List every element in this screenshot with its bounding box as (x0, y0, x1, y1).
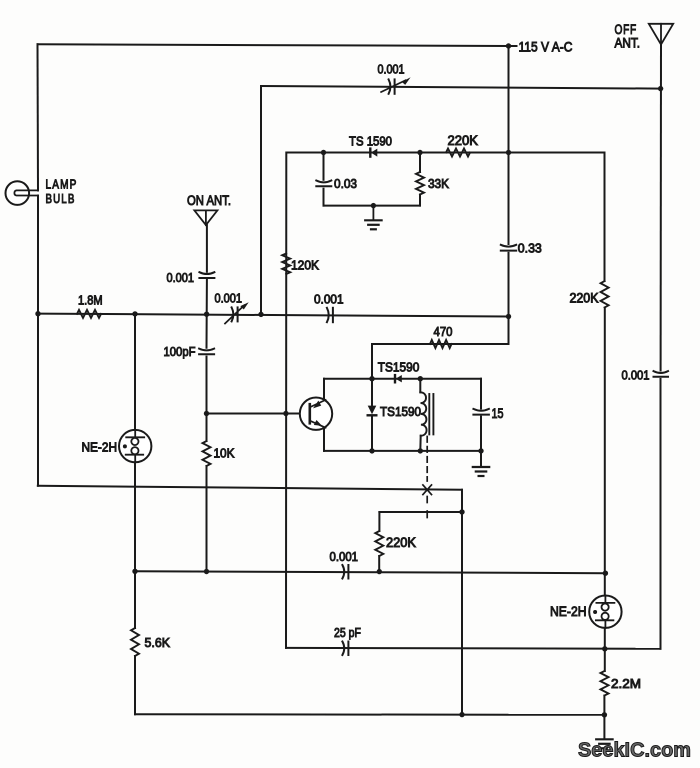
wire osc right vertical upper (480, 379, 482, 409)
svg-text:0.33: 0.33 (518, 241, 542, 256)
svg-text:25 pF: 25 pF (334, 625, 361, 640)
svg-text:ANT.: ANT. (615, 35, 641, 50)
wire TS1590 row horizontal (287, 152, 605, 154)
resistor 2.2M (601, 671, 609, 696)
wire right vertical x660 lower (660, 379, 662, 649)
resistor 220K (top) (446, 149, 470, 157)
junction y571 / 220K lower (377, 569, 382, 574)
junction y571 / x206 (204, 569, 209, 574)
capacitor 0.001 (bottom) (342, 565, 344, 579)
svg-text:1.8M: 1.8M (78, 294, 103, 308)
wire bottom horizontal (135, 713, 604, 716)
wire 220K lower bottom lead (378, 556, 380, 572)
wire 33K top lead (419, 153, 421, 173)
junction 115V bus / x508 (506, 43, 511, 48)
junction antenna bus / x660 (658, 86, 663, 91)
junction y571 / x135 (132, 569, 137, 574)
junction bottom / x462 (459, 712, 464, 717)
diode TS1590 (osc vertical) (368, 406, 377, 415)
capacitor 100pF (199, 349, 214, 351)
wire vertical x604 right branch upper (604, 153, 606, 282)
wire top horizontal 115V bus (38, 44, 509, 46)
svg-text:0.001: 0.001 (215, 292, 243, 306)
junction 25pF row / neon right (602, 646, 607, 651)
antenna OFF ANT (649, 24, 673, 45)
dashed adjust line (426, 437, 428, 482)
wire osc ground stub (480, 451, 482, 467)
wire vertical x604 (220K to neon) (604, 308, 606, 596)
resistor 120K (282, 254, 290, 275)
svg-text:NE-2H: NE-2H (82, 439, 118, 454)
resistor 220K (lower) (375, 531, 383, 556)
svg-text:NE-2H: NE-2H (550, 604, 587, 619)
junction osc bottom / coil (418, 448, 423, 453)
wire osc left upper (collector) (323, 379, 325, 401)
wire 33K bottom lead (419, 195, 421, 206)
capacitor 0.001 (antenna branch) (199, 272, 214, 274)
svg-text:0.03: 0.03 (334, 176, 357, 191)
wire horizontal y571 (135, 571, 606, 573)
wire osc left lower (emitter) (323, 427, 325, 451)
svg-text:220K: 220K (570, 291, 599, 306)
junction main mid / left vertical (35, 311, 40, 316)
junction base / x206 (204, 411, 209, 416)
wire osc right vertical lower (480, 417, 482, 451)
wire coil left vertical top lead (419, 379, 421, 393)
wire 470 row horizontal (372, 343, 509, 345)
junction x508 / TS1590 row (506, 150, 511, 155)
wire main mid horizontal (38, 314, 509, 317)
junction y512 / x462 (459, 509, 464, 514)
svg-text:115 V A-C: 115 V A-C (519, 39, 573, 55)
svg-text:220K: 220K (386, 535, 416, 550)
svg-text:2.2M: 2.2M (611, 676, 641, 691)
wire coil left vertical bottom lead (419, 436, 421, 451)
junction base / x286 (283, 411, 288, 416)
wire vertical x261 (260, 86, 262, 314)
wire neon2 to 2.2M (604, 628, 606, 671)
wire vertical x508 (from top bus) (508, 46, 510, 244)
junction osc top / x372 (369, 376, 374, 381)
svg-text:0.001: 0.001 (167, 271, 195, 285)
junction main mid / x261 (258, 312, 263, 317)
wire vertical x372 (470 to osc top) (371, 344, 373, 379)
transistor Q1 (300, 398, 332, 430)
svg-text:TS1590: TS1590 (378, 360, 420, 375)
junction y571 / neon right (603, 571, 608, 576)
wire 0.03 branch vertical upper (323, 153, 325, 180)
capacitor 25pF (342, 642, 344, 656)
ground (bottom) (596, 738, 612, 740)
wire TS1590 vert diode top lead (371, 379, 373, 406)
svg-text:SeekIC.com: SeekIC.com (578, 739, 691, 762)
lamp bulb (5, 181, 29, 205)
wire vertical x286 (120K branch) (285, 153, 287, 648)
wire 0.03 branch vertical lower (323, 189, 325, 206)
wire ON ANT mast (206, 225, 208, 272)
wire left vertical main (lower) (37, 196, 39, 486)
junction ground 0.03/33K (371, 203, 376, 208)
svg-text:33K: 33K (428, 176, 449, 191)
wire osc box top (324, 378, 481, 380)
svg-text:0.001: 0.001 (378, 63, 405, 77)
junction osc bottom / ground (478, 448, 483, 453)
wire right vertical x660 (OFF ANT down) (660, 45, 662, 371)
variable capacitor 0.001 (mid) (232, 307, 234, 321)
wire horizontal y512 (379, 511, 462, 513)
wire 2.2M bottom lead (603, 696, 605, 715)
junction main mid / x508 (506, 314, 511, 319)
junction main mid / x206 (204, 312, 209, 317)
capacitor 0.001 (right) (654, 371, 669, 373)
svg-text:TS1590: TS1590 (380, 404, 421, 419)
wire vertical x135 (upper) (134, 314, 136, 430)
svg-text:0.001: 0.001 (622, 369, 650, 383)
ground (0.03/33K) (372, 206, 374, 220)
inductor L1 (420, 392, 426, 435)
resistor 5.6K (131, 628, 139, 656)
junction 0.03 branch (321, 150, 326, 155)
svg-text:0.001: 0.001 (314, 293, 344, 307)
wire base lead horizontal (207, 413, 310, 415)
junction bottom / 2.2M (602, 712, 607, 717)
wire antenna bus horizontal (261, 86, 661, 89)
wire 25pF row horizontal (286, 647, 661, 650)
svg-text:100pF: 100pF (164, 344, 196, 359)
wire TS1590 vert diode bottom lead (371, 417, 373, 451)
wire vertical x135 (through to 5.6K) (134, 462, 136, 628)
capacitor 0.001 (mid wire) (327, 308, 329, 322)
wire x206 below 10K (206, 466, 208, 572)
svg-text:TS 1590: TS 1590 (349, 134, 392, 149)
svg-text:BULB: BULB (46, 191, 76, 206)
junction main mid / x135 (132, 311, 137, 316)
svg-text:120K: 120K (291, 257, 319, 272)
wire 220K lower top lead (378, 512, 380, 531)
junction osc top / coil (418, 376, 423, 381)
neon bulb NE-2H (left) (119, 430, 151, 462)
wire osc box bottom (324, 450, 481, 452)
wire left vertical main (upper) (37, 44, 40, 190)
svg-text:5.6K: 5.6K (145, 635, 171, 650)
svg-text:470: 470 (434, 324, 453, 339)
capacitor 0.03 (316, 181, 331, 183)
antenna ON ANT (194, 210, 217, 225)
ground (oscillator) (473, 466, 489, 468)
resistor 1.8M (77, 310, 101, 318)
wire vertical x508 (below 0.33) (508, 253, 510, 344)
diode TS1590 (row) (369, 149, 371, 157)
wire x206 below 100pF (206, 357, 208, 441)
svg-text:ON ANT.: ON ANT. (187, 193, 231, 208)
resistor 470 (430, 340, 452, 348)
resistor 10K (203, 441, 211, 466)
wire 115V label stub (509, 45, 517, 47)
svg-text:0.001: 0.001 (330, 550, 359, 564)
variable capacitor 0.001 top (389, 79, 391, 93)
svg-text:10K: 10K (214, 446, 235, 461)
resistor 33K (416, 172, 424, 195)
wire vertical x462 (461, 490, 463, 715)
capacitor 0.33 (501, 245, 516, 247)
diode TS1590 (osc top) (394, 375, 396, 382)
svg-text:220K: 220K (448, 133, 479, 148)
wire bottom ground stub (603, 715, 605, 739)
capacitor 15 (473, 409, 489, 411)
wire x206 below 0.001 cap (206, 280, 208, 348)
svg-text:15: 15 (492, 406, 504, 421)
svg-text:LAMP: LAMP (46, 177, 78, 192)
wire horizontal y488 (38, 486, 462, 490)
wire vertical x135 (below 5.6K) (134, 656, 136, 714)
resistor 220K (right) (601, 281, 609, 308)
neon bulb NE-2H (right) (589, 596, 621, 628)
junction osc bottom / x372 (369, 448, 374, 453)
junction 33K top (417, 150, 422, 155)
wire 0.03/33K bottom horizontal (324, 205, 421, 207)
